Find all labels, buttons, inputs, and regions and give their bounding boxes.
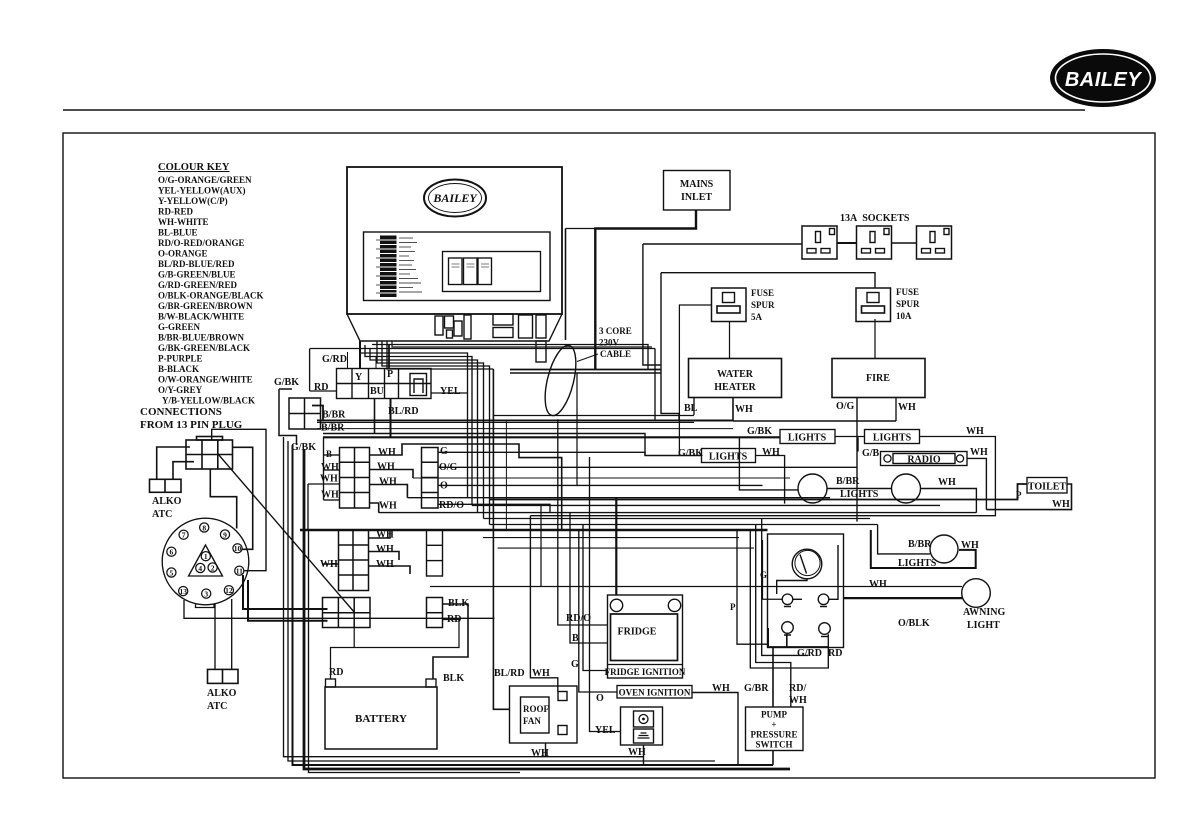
- plug drop wires: [214, 603, 216, 669]
- svg-text:CABLE: CABLE: [600, 349, 631, 359]
- svg-text:1: 1: [204, 552, 208, 561]
- top rule: [63, 109, 1085, 111]
- svg-text:OVEN IGNITION: OVEN IGNITION: [619, 688, 691, 698]
- svg-text:2: 2: [211, 563, 215, 572]
- 3 core cable ellipse: [539, 342, 582, 418]
- WH wire water heater: [732, 398, 734, 422]
- svg-text:G/RD: G/RD: [797, 648, 822, 659]
- svg-text:FAN: FAN: [523, 716, 541, 726]
- svg-text:O/G-ORANGE/GREEN: O/G-ORANGE/GREEN: [158, 175, 252, 185]
- svg-text:RD: RD: [447, 614, 461, 625]
- fuse block A feeds: [308, 437, 340, 530]
- svg-text:FUSE: FUSE: [751, 288, 774, 298]
- oven ignition WH wire: [692, 693, 738, 766]
- FRIDGE: [608, 595, 683, 678]
- svg-text:+: +: [771, 720, 776, 730]
- mains drop into panel: [565, 229, 567, 341]
- wire bundle centre verticals: [360, 341, 652, 709]
- wire bundle centre horizontals: [300, 498, 976, 530]
- svg-text:4: 4: [198, 564, 202, 573]
- svg-text:B: B: [572, 633, 579, 644]
- svg-text:BLK: BLK: [448, 598, 469, 609]
- svg-text:LIGHTS: LIGHTS: [873, 433, 912, 444]
- svg-text:ATC: ATC: [152, 509, 172, 520]
- svg-text:O/W-ORANGE/WHITE: O/W-ORANGE/WHITE: [158, 375, 253, 385]
- toilet WH wire: [986, 484, 1071, 510]
- svg-text:WH: WH: [869, 579, 887, 590]
- FUSE SPUR 10A: [856, 288, 891, 322]
- svg-text:LIGHTS: LIGHTS: [709, 452, 748, 463]
- 12N/12S connector: [289, 398, 321, 429]
- svg-text:B/BR: B/BR: [836, 476, 860, 487]
- fuse block C wires: [322, 530, 410, 574]
- svg-text:RD: RD: [329, 667, 343, 678]
- svg-text:RD/O-RED/ORANGE: RD/O-RED/ORANGE: [158, 238, 245, 248]
- svg-text:G/RD: G/RD: [322, 354, 347, 365]
- svg-text:3: 3: [204, 589, 208, 598]
- radio G/B riser: [857, 437, 859, 451]
- switch tiny labels: [452, 264, 490, 267]
- cable callout: [577, 354, 598, 362]
- svg-text:BL-BLUE: BL-BLUE: [158, 228, 198, 238]
- WATER HEATER: [689, 359, 782, 398]
- svg-text:G-GREEN: G-GREEN: [158, 322, 201, 332]
- svg-text:WH-WHITE: WH-WHITE: [158, 217, 209, 227]
- switch SW4: [819, 623, 831, 635]
- svg-text:RD/: RD/: [789, 683, 806, 694]
- svg-text:12: 12: [225, 586, 233, 595]
- svg-text:WH: WH: [376, 559, 394, 570]
- AWNING LIGHT: [962, 579, 991, 608]
- svg-text:Y: Y: [355, 372, 363, 383]
- svg-text:PUMP: PUMP: [761, 710, 787, 720]
- svg-text:HEATER: HEATER: [714, 382, 756, 393]
- fridge B wire: [570, 513, 608, 643]
- RADIO unit: [881, 452, 968, 466]
- svg-text:5A: 5A: [751, 312, 763, 322]
- svg-text:Y-YELLOW(C/P): Y-YELLOW(C/P): [158, 196, 228, 206]
- svg-text:WH: WH: [1052, 499, 1070, 510]
- svg-text:G/BR: G/BR: [744, 683, 769, 694]
- svg-text:WH: WH: [712, 683, 730, 694]
- fuse block C: [339, 530, 369, 591]
- svg-text:RD/O: RD/O: [439, 500, 464, 511]
- feeds into 3x2: [243, 575, 328, 621]
- svg-text:BAILEY: BAILEY: [432, 191, 478, 205]
- 5A to water heater wire: [729, 322, 731, 359]
- svg-text:SPUR: SPUR: [896, 299, 920, 309]
- panel inner board: [364, 232, 551, 301]
- svg-text:7: 7: [182, 531, 186, 540]
- svg-text:RD/O: RD/O: [566, 613, 591, 624]
- ceiling light L1: [798, 474, 827, 503]
- switch SW3: [782, 622, 794, 634]
- svg-text:G: G: [760, 570, 767, 580]
- roof fan WH wire: [530, 516, 557, 692]
- svg-text:SWITCH: SWITCH: [755, 740, 792, 750]
- svg-text:LIGHTS: LIGHTS: [840, 489, 879, 500]
- svg-text:WH: WH: [321, 490, 339, 501]
- svg-text:WH: WH: [377, 462, 395, 473]
- switch 1: [449, 258, 463, 285]
- svg-text:O/BLK: O/BLK: [898, 618, 930, 629]
- svg-text:WH: WH: [379, 477, 397, 488]
- svg-text:WH: WH: [320, 474, 338, 485]
- svg-text:CONNECTIONS: CONNECTIONS: [140, 406, 222, 418]
- WH wire fire: [895, 398, 897, 422]
- svg-text:COLOUR KEY: COLOUR KEY: [158, 162, 230, 173]
- svg-text:FRIDGE: FRIDGE: [618, 627, 657, 638]
- BLK wire to battery: [433, 604, 468, 679]
- igniter YEL wire: [602, 731, 621, 733]
- main border frame: [63, 133, 1155, 778]
- svg-text:TOILET: TOILET: [1028, 482, 1066, 493]
- svg-text:MAINS: MAINS: [680, 179, 714, 190]
- switch 3: [478, 258, 492, 285]
- svg-text:13A SOCKETS: 13A SOCKETS: [840, 213, 910, 224]
- svg-text:WATER: WATER: [717, 369, 754, 380]
- svg-text:9: 9: [223, 530, 227, 539]
- ROOF FAN: [510, 686, 578, 743]
- svg-text:B-BLACK: B-BLACK: [158, 364, 199, 374]
- svg-text:SPUR: SPUR: [751, 300, 775, 310]
- svg-text:BU: BU: [370, 386, 384, 397]
- svg-text:RADIO: RADIO: [907, 455, 941, 466]
- svg-text:BL/RD: BL/RD: [494, 668, 525, 679]
- svg-text:P: P: [387, 369, 393, 380]
- WH bus water heater to fire: [733, 420, 896, 422]
- oven O wire: [579, 530, 617, 692]
- wire between lights: [827, 488, 892, 490]
- socket link wire S2-S3: [892, 242, 916, 244]
- mains feed wire: [595, 210, 696, 369]
- svg-text:G/BR-GREEN/BROWN: G/BR-GREEN/BROWN: [158, 301, 253, 311]
- Bailey corporate logo: [1050, 49, 1156, 107]
- svg-text:BL: BL: [684, 403, 698, 414]
- meter left risers: [737, 519, 828, 708]
- svg-text:O/G: O/G: [836, 401, 855, 412]
- svg-text:5: 5: [170, 568, 174, 577]
- svg-text:G/BK: G/BK: [747, 426, 772, 437]
- svg-text:PRESSURE: PRESSURE: [750, 730, 797, 740]
- svg-text:WH: WH: [321, 462, 339, 473]
- RD wire: [310, 390, 337, 392]
- svg-text:11: 11: [236, 567, 243, 576]
- YEL wire: [431, 392, 468, 394]
- BU wire: [374, 399, 376, 434]
- svg-text:13: 13: [179, 587, 187, 596]
- svg-text:B/BR: B/BR: [321, 423, 345, 434]
- fuse block A: [340, 448, 370, 509]
- 230V pair wires: [510, 369, 661, 371]
- PUMP PRESSURE SWITCH: [746, 707, 804, 751]
- panel Bailey oval badge: [424, 180, 486, 217]
- svg-text:FRIDGE IGNITION: FRIDGE IGNITION: [605, 667, 686, 677]
- switch 2: [464, 258, 478, 285]
- RD/O wire: [438, 504, 550, 512]
- G wire: [438, 452, 645, 455]
- wire lights row 2: [756, 456, 785, 504]
- switch SW2: [818, 594, 829, 605]
- BLK RD block: [427, 598, 443, 628]
- roof fan wire: [545, 743, 547, 757]
- diagonal harness wire: [218, 454, 355, 613]
- pins: [167, 523, 244, 598]
- svg-text:P: P: [730, 602, 736, 612]
- lights B/BR riser: [739, 437, 798, 490]
- svg-text:G: G: [440, 446, 448, 457]
- svg-text:ROOF: ROOF: [523, 704, 550, 714]
- svg-text:AWNING: AWNING: [963, 607, 1005, 618]
- colour key: [140, 162, 264, 431]
- O wire: [438, 484, 763, 486]
- spur feed wire: [661, 273, 875, 288]
- svg-text:WH: WH: [966, 426, 984, 437]
- mains loop wire: [643, 244, 661, 365]
- fridge main drop: [615, 498, 617, 595]
- O/G wire fire: [856, 398, 858, 522]
- socket S2: [857, 226, 892, 259]
- fuse row connector: [337, 369, 432, 399]
- socket link wire S1-S2: [837, 242, 856, 244]
- control panel U1: [347, 167, 562, 341]
- svg-text:YEL: YEL: [595, 725, 616, 736]
- svg-text:O-ORANGE: O-ORANGE: [158, 249, 208, 259]
- svg-text:BLK: BLK: [443, 673, 464, 684]
- meter gauge: [792, 549, 822, 579]
- connector 3x2: [323, 598, 371, 628]
- BATTERY: [325, 687, 437, 749]
- svg-text:G/BK: G/BK: [678, 448, 703, 459]
- svg-text:FIRE: FIRE: [866, 373, 890, 384]
- svg-text:8: 8: [202, 523, 206, 532]
- awning wires: [430, 586, 962, 588]
- svg-text:WH: WH: [379, 501, 397, 512]
- svg-text:WH: WH: [376, 544, 394, 555]
- svg-text:O/G: O/G: [439, 462, 458, 473]
- svg-text:RD: RD: [314, 382, 328, 393]
- aux vertical wire: [576, 373, 578, 486]
- svg-text:LIGHT: LIGHT: [967, 620, 1000, 631]
- panel fuse strip: [376, 236, 422, 298]
- svg-text:WH: WH: [320, 559, 338, 570]
- radio WH wire: [967, 458, 986, 509]
- svg-text:WH: WH: [376, 530, 394, 541]
- svg-text:BL/RD-BLUE/RED: BL/RD-BLUE/RED: [158, 259, 235, 269]
- socket S3: [917, 226, 952, 259]
- light B/BR round: [930, 535, 958, 563]
- battery terminals: [326, 679, 336, 687]
- svg-text:BL/RD: BL/RD: [388, 406, 419, 417]
- svg-text:FUSE: FUSE: [896, 287, 919, 297]
- socket feed wire: [643, 243, 802, 245]
- connector blockD (3 cell): [427, 530, 443, 576]
- panel trapezoid base: [347, 314, 562, 341]
- svg-text:LIGHTS: LIGHTS: [788, 433, 827, 444]
- svg-text:P-PURPLE: P-PURPLE: [158, 354, 203, 364]
- bottom bundle wires: [284, 437, 791, 773]
- svg-text:G/B-GREEN/BLUE: G/B-GREEN/BLUE: [158, 270, 236, 280]
- panel switch box: [443, 252, 541, 292]
- RD wire to battery: [331, 620, 460, 680]
- plug connector wires: [157, 429, 266, 570]
- svg-text:O: O: [596, 693, 604, 704]
- ALKO ATC unit 1: [150, 479, 182, 492]
- svg-text:YEL: YEL: [440, 386, 461, 397]
- connector stub: [312, 406, 323, 421]
- svg-text:G/BK: G/BK: [274, 377, 299, 388]
- FUSE SPUR 5A: [712, 288, 747, 322]
- B/BR bus wires: [310, 345, 790, 479]
- svg-text:RD-RED: RD-RED: [158, 207, 193, 217]
- plug triangle: [189, 545, 223, 576]
- small feed drops: [347, 352, 349, 369]
- pump feed wires: [768, 628, 828, 707]
- fuse block B outputs: [422, 448, 439, 509]
- svg-text:B/W-BLACK/WHITE: B/W-BLACK/WHITE: [158, 312, 244, 322]
- 5A feed wire: [679, 305, 711, 455]
- P wire drop: [388, 345, 390, 369]
- connector plugs under panel: [435, 314, 546, 362]
- igniter unit: [621, 707, 663, 745]
- svg-text:G/RD-GREEN/RED: G/RD-GREEN/RED: [158, 280, 238, 290]
- 13 pin plug: [162, 518, 249, 607]
- svg-text:WH: WH: [378, 447, 396, 458]
- svg-text:BATTERY: BATTERY: [355, 713, 407, 725]
- svg-text:WH: WH: [735, 404, 753, 415]
- svg-text:WH: WH: [970, 447, 988, 458]
- plug tail wire: [184, 600, 495, 618]
- svg-text:Y/B-YELLOW/BLACK: Y/B-YELLOW/BLACK: [162, 396, 255, 406]
- 3x2 bottom stub wire: [353, 628, 355, 648]
- svg-text:ATC: ATC: [207, 701, 227, 712]
- svg-text:O/BLK-ORANGE/BLACK: O/BLK-ORANGE/BLACK: [158, 291, 264, 301]
- svg-text:B/BR-BLUE/BROWN: B/BR-BLUE/BROWN: [158, 333, 245, 343]
- BL wire: [693, 398, 695, 416]
- switch SW1: [782, 594, 793, 605]
- FIRE: [832, 359, 925, 398]
- svg-text:ALKO: ALKO: [207, 688, 237, 699]
- ceiling light L2: [892, 474, 921, 503]
- svg-text:3 CORE: 3 CORE: [599, 326, 632, 336]
- fuse block A outputs WH: [370, 421, 562, 531]
- 13 pin plug connector: [186, 437, 233, 470]
- svg-text:WH: WH: [898, 402, 916, 413]
- OVEN IGNITION: [617, 686, 692, 699]
- plug bottom tab: [196, 604, 215, 607]
- MAINS INLET box: [664, 171, 731, 211]
- igniter WH drop: [636, 745, 644, 765]
- TOILET box: [1027, 478, 1067, 494]
- svg-text:6: 6: [170, 548, 174, 557]
- svg-text:WH: WH: [938, 477, 956, 488]
- BL bus: [494, 415, 694, 417]
- svg-text:B: B: [326, 449, 332, 459]
- G/BK wire left: [279, 389, 297, 445]
- meter internal wires: [763, 540, 839, 599]
- socket S1: [802, 226, 837, 259]
- svg-text:10A: 10A: [896, 311, 912, 321]
- svg-text:10: 10: [234, 544, 242, 553]
- svg-text:YEL-YELLOW(AUX): YEL-YELLOW(AUX): [158, 186, 246, 196]
- svg-text:INLET: INLET: [681, 192, 712, 203]
- svg-text:BAILEY: BAILEY: [1065, 69, 1143, 91]
- 10A to fire wire: [874, 319, 876, 358]
- svg-text:WH: WH: [762, 447, 780, 458]
- svg-text:230V: 230V: [599, 338, 620, 348]
- svg-text:WH: WH: [789, 695, 807, 706]
- svg-text:G/B: G/B: [862, 448, 880, 459]
- svg-text:O/Y-GREY: O/Y-GREY: [158, 385, 203, 395]
- svg-text:G/BK-GREEN/BLACK: G/BK-GREEN/BLACK: [158, 343, 250, 353]
- Y wire: [359, 341, 361, 369]
- svg-text:O: O: [440, 481, 448, 492]
- LIGHTS box 3: [702, 449, 756, 463]
- toilet P wire: [490, 484, 1027, 500]
- panel meter unit: [768, 534, 844, 648]
- aux horizontals: [483, 537, 739, 539]
- svg-text:ALKO: ALKO: [152, 496, 182, 507]
- svg-text:B/BR: B/BR: [908, 539, 932, 550]
- wire lights row 1: [835, 436, 865, 438]
- svg-text:RD: RD: [828, 648, 842, 659]
- B/BR light wires: [878, 525, 931, 554]
- ALKO ATC unit 2: [208, 669, 239, 683]
- BL/RD drop: [390, 399, 392, 438]
- LIGHTS box 1: [780, 430, 835, 444]
- svg-text:G: G: [571, 659, 579, 670]
- fridge G wire: [583, 525, 608, 671]
- O/G wire: [438, 466, 857, 468]
- pump return wire: [772, 751, 774, 765]
- svg-text:B/BR: B/BR: [322, 410, 346, 421]
- LIGHTS box 2: [865, 430, 920, 444]
